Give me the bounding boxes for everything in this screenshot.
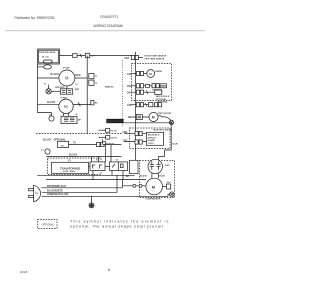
svg-text:GREEN&YELLOW: GREEN&YELLOW (47, 193, 69, 196)
svg-text:DISPLAY: DISPLAY (148, 136, 157, 139)
auxiliary relay box (58, 141, 69, 147)
CN5 plug (136, 103, 139, 107)
swing motor M3 (147, 70, 155, 78)
cap bottom leads (151, 173, 153, 178)
power plug (34, 185, 41, 201)
svg-text:BLACK: BLACK (69, 154, 78, 157)
svg-text:OPTIONAL: OPTIONAL (42, 223, 55, 226)
connector T1 stacked (89, 74, 94, 79)
wire relay to board (69, 144, 122, 146)
svg-text:M: M (65, 76, 69, 81)
svg-text:MAIN BD: MAIN BD (106, 142, 115, 145)
middle vertical bus (86, 56, 88, 134)
svg-text:T5: T5 (73, 141, 76, 144)
optional area dashed line (36, 133, 122, 135)
CN4 row wire (132, 91, 156, 93)
terminal box main (103, 142, 106, 145)
svg-text:BOARD: BOARD (148, 139, 156, 142)
svg-text:ROOM TEMP. SENSOR: ROOM TEMP. SENSOR (145, 55, 167, 57)
svg-text:6: 6 (108, 268, 110, 272)
wire green yellow (42, 195, 169, 197)
connector strip CN-PG dark (107, 119, 124, 123)
diagram tiny text labels (35, 51, 178, 200)
compressor ground (170, 192, 175, 197)
compressor left lead with bullet connectors (123, 185, 146, 187)
svg-text:BK: BK (126, 176, 129, 178)
connector plug CN-L (85, 53, 89, 57)
CN3 device box (152, 84, 155, 88)
svg-text:BLACK: BLACK (43, 138, 52, 141)
terminal box C (130, 160, 139, 173)
wire M2 right to connector (73, 104, 91, 106)
wire transformer to relays (89, 166, 91, 168)
connector plug M2 (91, 101, 94, 105)
fuse F2 (73, 54, 78, 58)
thermal sensor T circle (46, 89, 51, 94)
power board terminal oval (44, 65, 52, 69)
svg-text:1.5: 1.5 (41, 149, 45, 151)
svg-text:CN5: CN5 (127, 104, 132, 107)
note dashed box (38, 220, 58, 229)
svg-text:DISP: DISP (161, 86, 167, 88)
wire drops from relay boxes (92, 171, 94, 180)
svg-text:T1: T1 (95, 76, 98, 78)
CN4 plug (136, 90, 139, 94)
fan motor M2 (59, 99, 73, 113)
svg-text:This symbol indicates the elem: This symbol indicates the element is (70, 220, 170, 224)
svg-text:BLUE: BLUE (172, 144, 178, 146)
svg-text:1.5: 1.5 (75, 84, 79, 86)
svg-text:CN-PG: CN-PG (108, 120, 116, 124)
wire M1 left black (38, 77, 59, 79)
svg-text:BLUE: BLUE (160, 175, 166, 177)
CN3 row wire (132, 85, 160, 87)
svg-text:MF: MF (78, 119, 82, 121)
wire to capacitor from board (123, 123, 172, 157)
svg-text:WIFI MODULE: WIFI MODULE (156, 96, 170, 98)
feed wires into box A (91, 157, 93, 162)
cap top lead (159, 157, 165, 160)
svg-text:~: ~ (152, 189, 154, 193)
svg-text:CN7: CN7 (123, 139, 128, 142)
right dashed option box upper (132, 64, 172, 101)
capacitor block C1 C2 (60, 89, 72, 94)
step motor terminal box (136, 115, 142, 120)
compressor optional dashed box (140, 161, 175, 198)
svg-text:RD: RD (95, 103, 98, 105)
svg-text:SWING: SWING (155, 71, 162, 73)
display board dashed box (130, 128, 171, 149)
slash mark M2 wire (78, 102, 80, 106)
capacitor box C3 (61, 116, 77, 123)
svg-text:IP FAN: IP FAN (61, 96, 68, 99)
wire power board to junction (60, 55, 136, 57)
svg-text:optional, the actual shape sha: optional, the actual shape shall prevail (70, 225, 164, 229)
step motor lead squiggle (158, 115, 164, 117)
svg-text:RECEIVER &: RECEIVER & (148, 135, 160, 137)
svg-text:OPTIONAL: OPTIONAL (157, 101, 168, 104)
svg-text:T1: T1 (44, 84, 47, 86)
CN4 slash (146, 91, 148, 94)
svg-text:PG TH: PG TH (111, 131, 118, 133)
svg-text:OPTIONAL: OPTIONAL (54, 138, 67, 141)
plug prong 2 (29, 195, 34, 197)
CN5 slash (145, 103, 147, 106)
fan motor M1 (59, 70, 75, 86)
svg-text:BLACK: BLACK (140, 174, 148, 177)
svg-text:MAIN BD: MAIN BD (105, 86, 114, 89)
svg-text:10/18: 10/18 (20, 270, 28, 274)
thermistor box OA TH (106, 136, 110, 140)
svg-text:CN2: CN2 (127, 73, 132, 76)
CN3 fuse (146, 84, 150, 87)
CN4 device box (155, 90, 162, 94)
CN7 row (124, 141, 147, 143)
svg-text:BRN RED: BRN RED (55, 87, 65, 89)
terminal box B (110, 162, 128, 171)
svg-text:TRANSFORMER: TRANSFORMER (60, 166, 80, 170)
svg-text:CN4: CN4 (127, 92, 132, 95)
svg-text:CN3: CN3 (127, 85, 132, 88)
svg-text:FOUR WAY VALVE: FOUR WAY VALVE (39, 51, 56, 54)
sensor stub wire (48, 85, 50, 89)
svg-text:OLP: OLP (167, 182, 172, 184)
wire M2 bottom to cap box (63, 113, 65, 117)
svg-text:CRA057PT1: CRA057PT1 (100, 15, 119, 19)
wire M1 right red to bus (75, 77, 87, 79)
CN3 plug (136, 84, 139, 88)
step motor ground circle (169, 120, 173, 124)
chassis ground symbol (89, 203, 94, 208)
CN5 row wire (132, 104, 154, 106)
svg-text:M: M (152, 116, 155, 120)
svg-text:CN-D1: CN-D1 (148, 143, 154, 145)
connector T2 stacked (89, 80, 94, 85)
svg-text:OA TH: OA TH (111, 137, 118, 140)
svg-text:OPTIONAL: OPTIONAL (152, 89, 163, 92)
run capacitor CAP (148, 159, 162, 173)
svg-text:COMPRESSOR: COMPRESSOR (146, 198, 162, 200)
step motor M4 (149, 112, 158, 121)
wire bus drop to compressor row (122, 180, 124, 188)
plug prong 1 (29, 189, 34, 191)
svg-text:OPTIONAL: OPTIONAL (156, 98, 167, 101)
svg-text:CN: CN (61, 145, 65, 147)
svg-text:4: 4 (129, 116, 131, 119)
svg-text:PIPE TEMP. SENSOR: PIPE TEMP. SENSOR (145, 58, 166, 60)
svg-text:M: M (64, 104, 68, 109)
svg-text:CN1: CN1 (124, 57, 129, 60)
run capacitor small circle (49, 116, 54, 121)
power board box (38, 49, 60, 64)
slash mark supply wire (80, 54, 82, 58)
svg-text:T5: T5 (116, 160, 119, 162)
left bus wire (38, 64, 52, 113)
CN5 box (149, 103, 153, 107)
svg-text:BROWN/BLACK: BROWN/BLACK (47, 185, 66, 188)
svg-text:CAP: CAP (165, 164, 170, 167)
CN2 row wire (132, 73, 148, 75)
bottom long wire 2 (46, 179, 146, 181)
svg-text:STEP MOTOR: STEP MOTOR (158, 113, 172, 115)
svg-text:T2: T2 (95, 83, 98, 85)
sensor connector CN1 plug (131, 55, 134, 59)
header rule (5, 30, 205, 32)
CN5 connector pair 2 (155, 103, 158, 107)
svg-text:Publication No. 5995570253: Publication No. 5995570253 (15, 16, 55, 20)
black wire long (47, 156, 122, 158)
svg-text:BLACK: BLACK (51, 73, 60, 76)
wire drop to ground (90, 196, 92, 203)
compressor motor (146, 178, 163, 195)
wire sensor to cap block (51, 90, 60, 92)
step motor row wire (128, 116, 149, 118)
svg-text:BLACK: BLACK (47, 101, 56, 104)
connector pair relay wire (97, 142, 100, 146)
CN2 plug (136, 71, 139, 75)
svg-text:230V / 50Hz: 230V / 50Hz (63, 171, 76, 173)
main board bus line (122, 60, 124, 126)
svg-text:RECEIVER & DISPLAY: RECEIVER & DISPLAY (153, 129, 173, 132)
transformer box (52, 162, 89, 173)
svg-text:04 = 04: 04 = 04 (42, 55, 50, 58)
wire brown black (42, 187, 123, 189)
overload protector (163, 186, 167, 188)
relay box A (90, 162, 105, 171)
transformer dashed box (48, 158, 102, 175)
ambient sensor circle (45, 149, 50, 154)
wire M2 left black (38, 103, 59, 105)
bottom long wire 1 (37, 174, 134, 176)
svg-text:PG: PG (35, 193, 38, 195)
svg-text:IP FAN: IP FAN (63, 66, 70, 69)
wire M1 bottom to caps (66, 86, 68, 89)
wire blue white (42, 175, 117, 192)
CN6 row (124, 133, 147, 135)
display board inner box (147, 132, 164, 145)
svg-text:MFD: MFD (75, 89, 80, 91)
svg-text:WIRING DIAGRAM: WIRING DIAGRAM (94, 24, 124, 28)
svg-text:25: 25 (75, 114, 78, 116)
svg-text:CN6: CN6 (123, 131, 128, 134)
svg-text:RED: RED (75, 74, 80, 77)
thermistor box PG TH (106, 128, 110, 132)
